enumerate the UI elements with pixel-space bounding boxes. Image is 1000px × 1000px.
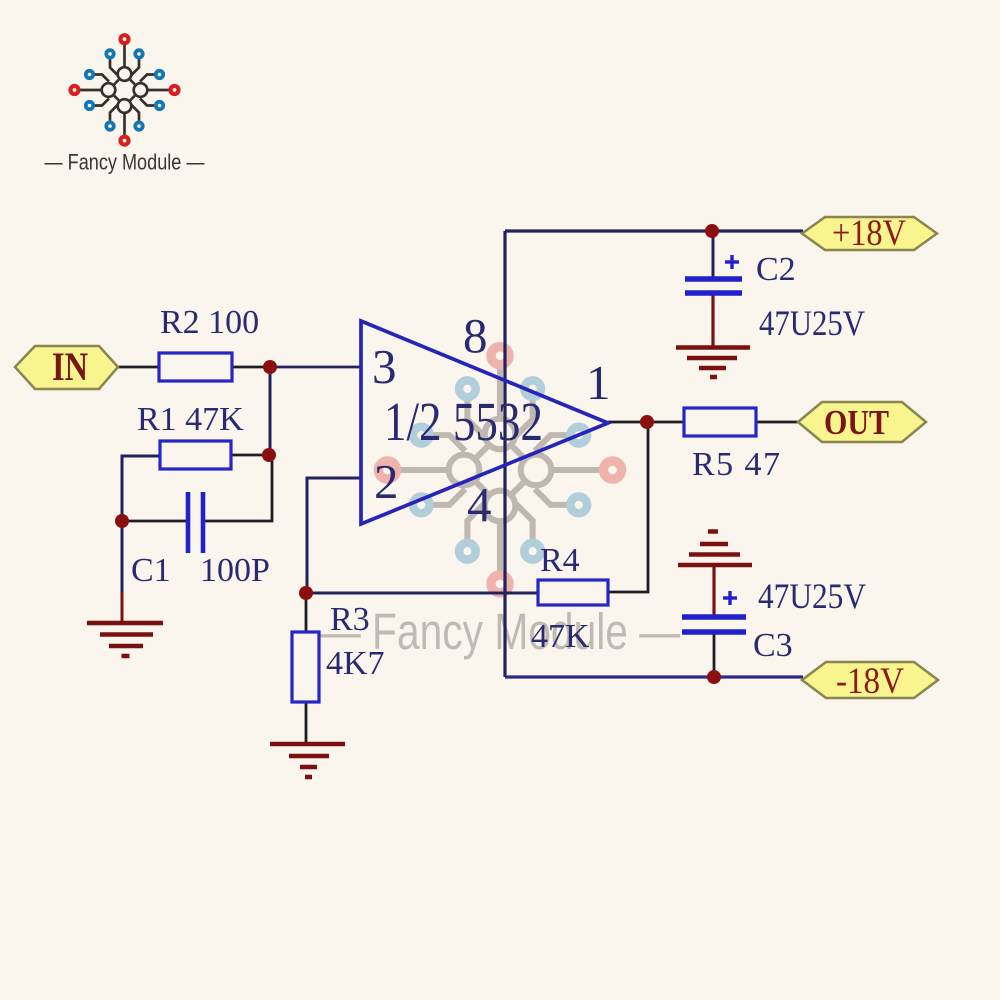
wire C2 bottom to ground (dark red) [711,295,714,346]
wire op-amp pin 2 left and down [307,478,361,593]
svg-text:47U25V: 47U25V [758,576,866,616]
resistor R5 [684,408,756,436]
svg-text:R1 47K: R1 47K [137,401,244,438]
junction node C [115,514,129,528]
wire node A down to node B [269,367,272,455]
junction node A [263,360,277,374]
wire node C to C1 left plate [122,520,188,523]
svg-text:8: 8 [463,308,488,363]
ground under C2 [676,348,750,378]
resistor R4 [538,580,608,605]
wire C1 right plate up to node B [202,457,272,521]
svg-text:1/2 5532: 1/2 5532 [384,391,543,452]
svg-text:R5 47: R5 47 [692,446,780,483]
logo Fancy Module [45,35,205,174]
wire R2 to node A [232,366,270,369]
wire R1 left down [122,456,160,521]
wire C3 bottom to node F [713,634,716,677]
svg-text:-18V: -18V [836,661,904,702]
wire to ground 1 (dark red) [121,592,124,621]
watermark logo [320,347,680,660]
wire positive supply vertical pin8 pin4 [503,231,506,677]
junction node B [262,448,276,462]
svg-text:R2 100: R2 100 [160,304,259,341]
resistor R3 [292,632,319,702]
junction node F [707,670,721,684]
junction top rail [705,224,719,238]
wire R1 right to node B [231,454,270,457]
port -18V [802,661,938,702]
wire node D to R4 left [307,592,538,595]
wire R3 bottom to ground [305,702,308,742]
capacitor C2 [685,279,742,293]
resistor R1 [160,441,231,469]
wire node C down [121,521,124,592]
ground under C1 [87,623,163,656]
svg-text:R4: R4 [540,542,580,579]
wire C2 top [712,231,715,277]
svg-text:4K7: 4K7 [326,645,385,682]
ground under R3 [270,744,345,777]
C3 plus sign [723,591,737,605]
svg-text:47K: 47K [531,618,590,655]
svg-text:3: 3 [372,339,397,394]
wire top rail to +18V [505,229,803,232]
svg-text:C2: C2 [756,251,796,288]
svg-text:R3: R3 [330,601,370,638]
svg-text:4: 4 [467,477,492,532]
junction node E [640,415,654,429]
svg-text:C3: C3 [753,627,793,664]
C2 plus sign [725,255,739,269]
svg-text:2: 2 [374,454,399,509]
svg-text:+18V: +18V [832,213,906,254]
svg-text:100P: 100P [200,552,270,589]
svg-text:OUT: OUT [824,403,889,442]
wire inverted ground to C3 (dark red) [712,567,715,615]
wire node D to R3 top [305,593,308,632]
inverted ground above C3 [678,532,752,566]
capacitor C3 [682,617,746,632]
wire IN to R2 [117,366,159,369]
svg-text:IN: IN [52,344,88,389]
wire R5 to OUT [756,421,799,424]
svg-text:C1: C1 [131,552,171,589]
port IN [15,344,118,389]
port OUT [798,402,926,442]
op-amp U1 triangle [361,321,608,524]
wire op-amp output to R5 [608,421,684,424]
svg-text:47U25V: 47U25V [759,303,865,343]
wire bottom rail to -18V [505,675,803,678]
svg-text:1: 1 [586,355,611,410]
port +18V [802,213,937,254]
junction node D [299,586,313,600]
wire node A to op-amp pin 3 [270,366,361,369]
resistor R2 [159,353,232,381]
wire R4 right up to node E [608,422,648,592]
capacitor C1 [188,492,203,553]
